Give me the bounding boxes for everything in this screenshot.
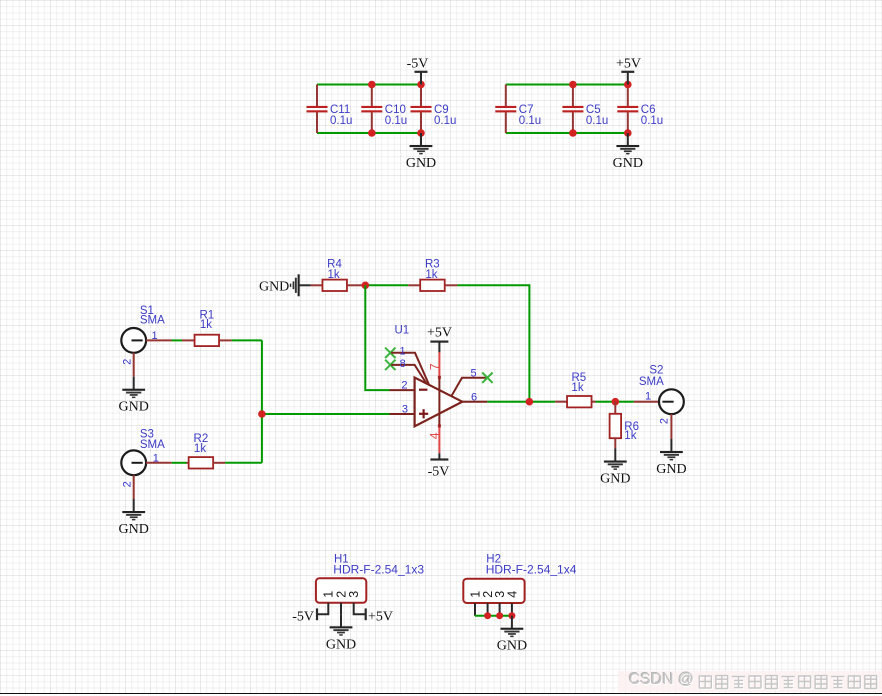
- svg-text:HDR-F-2.54_1x3: HDR-F-2.54_1x3: [333, 562, 424, 576]
- svg-text:C10: C10: [385, 104, 406, 116]
- svg-text:4: 4: [427, 432, 441, 439]
- svg-text:1: 1: [645, 391, 651, 403]
- svg-text:1: 1: [399, 346, 405, 358]
- svg-text:8: 8: [400, 358, 406, 370]
- svg-text:0.1u: 0.1u: [586, 115, 608, 127]
- svg-text:1k: 1k: [200, 319, 212, 331]
- svg-text:7: 7: [427, 363, 441, 370]
- svg-text:U1: U1: [395, 324, 410, 336]
- svg-text:4: 4: [506, 591, 520, 598]
- svg-text:0.1u: 0.1u: [519, 115, 541, 127]
- svg-text:SMA: SMA: [639, 376, 664, 388]
- svg-text:C11: C11: [330, 104, 350, 116]
- svg-text:1k: 1k: [328, 269, 340, 281]
- svg-text:1: 1: [151, 330, 157, 342]
- svg-text:1k: 1k: [194, 443, 206, 455]
- svg-text:HDR-F-2.54_1x4: HDR-F-2.54_1x4: [486, 562, 577, 576]
- svg-text:2: 2: [658, 418, 670, 424]
- svg-text:SMA: SMA: [140, 439, 165, 451]
- svg-text:3: 3: [402, 403, 408, 415]
- svg-text:0.1u: 0.1u: [434, 115, 456, 127]
- svg-text:3: 3: [347, 591, 361, 598]
- svg-text:+5V: +5V: [368, 610, 393, 625]
- svg-text:5: 5: [470, 368, 476, 380]
- svg-text:2: 2: [401, 379, 407, 391]
- svg-text:-5V: -5V: [292, 610, 314, 625]
- svg-text:S2: S2: [649, 365, 663, 377]
- svg-text:C5: C5: [586, 104, 601, 116]
- svg-text:1k: 1k: [425, 269, 437, 281]
- svg-text:GND: GND: [259, 279, 289, 294]
- svg-text:C7: C7: [519, 104, 534, 116]
- svg-text:+5V: +5V: [427, 326, 452, 341]
- svg-text:-5V: -5V: [428, 465, 450, 480]
- svg-text:6: 6: [471, 391, 477, 403]
- svg-text:0.1u: 0.1u: [330, 115, 352, 127]
- svg-text:C9: C9: [434, 104, 449, 116]
- svg-text:+5V: +5V: [616, 57, 641, 72]
- svg-text:0.1u: 0.1u: [641, 115, 663, 127]
- svg-text:2: 2: [122, 481, 134, 487]
- svg-text:1k: 1k: [571, 382, 583, 394]
- svg-text:C6: C6: [641, 104, 656, 116]
- svg-text:-5V: -5V: [407, 57, 429, 72]
- svg-text:2: 2: [122, 359, 134, 365]
- svg-text:1k: 1k: [624, 430, 636, 442]
- svg-text:1: 1: [153, 452, 159, 464]
- svg-text:0.1u: 0.1u: [385, 115, 407, 127]
- svg-text:SMA: SMA: [140, 315, 165, 327]
